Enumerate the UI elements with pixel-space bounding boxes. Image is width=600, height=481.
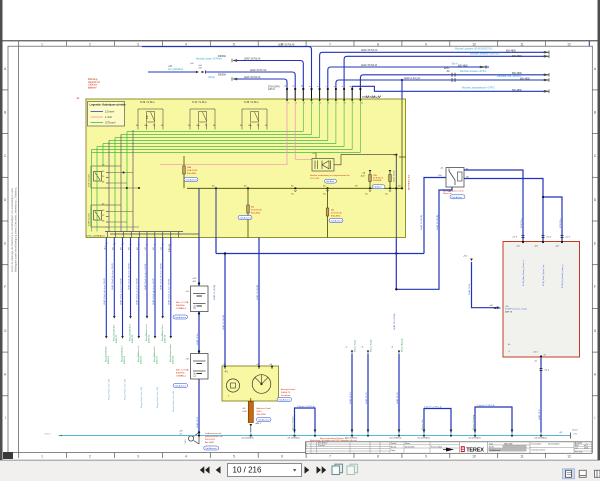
title block [306,439,593,454]
pin labels row [285,85,360,87]
connector end row8 [544,73,549,77]
margin inner line [18,46,20,452]
svg-text:57a: 57a [365,194,368,196]
ground wire stub C label [391,337,403,432]
connector marks under bus [294,190,391,192]
junction dots left [123,172,141,190]
svg-text:+30: +30 [223,364,226,366]
svg-text:7: 7 [326,86,328,87]
page gap line [3,40,598,42]
svg-text:-KM15: -KM15 [44,434,51,436]
svg-text:57a: 57a [323,194,326,196]
svg-text:0,5mm² +5 KFL-A: 0,5mm² +5 KFL-A [477,404,495,407]
svg-text:62 B 30 06: 62 B 30 06 [331,213,342,215]
label text G1 [176,301,189,310]
svg-text:+01 (-KGND1): +01 (-KGND1) [287,438,300,440]
svg-text:800-4800: 800-4800 [512,73,522,75]
switch S5 left [89,204,109,228]
node +30 left pin [493,306,528,314]
node stub right edge [393,155,406,158]
svg-text:ECM_KeySwitch_Input_p: ECM_KeySwitch_Input_p [561,264,564,288]
wire drop 9 [170,238,173,339]
wire row10 pin9 jog right [352,86,544,91]
margin disclaimer rotated text [11,187,17,272]
svg-text:Masse Hupe: Masse Hupe [354,339,356,352]
svg-text:Franz Gruber: Franz Gruber [431,446,443,449]
relay M1 center [312,153,397,172]
wire pink pair [160,159,312,164]
svg-text:24 V+/54: 24 V+/54 [310,178,320,180]
svg-text:-MB.1: -MB.1 [255,423,262,425]
svg-text:10: 10 [361,103,363,105]
svg-text:LEAF 30 (5L/B): LEAF 30 (5L/B) [256,285,259,300]
svg-text:LEAF 15u/L-ch 1mm GNYE: LEAF 15u/L-ch 1mm GNYE [119,278,122,305]
svg-text:04.06.2010: 04.06.2010 [405,447,414,449]
svg-text:Drawing number: Drawing number [532,449,546,452]
label oval M1 [325,179,337,183]
svg-text:+X7.5: +X7.5 [565,237,570,239]
bundle tail labels lightblue [109,378,176,412]
terminal symbols +15 [168,63,206,74]
svg-text:-123: -123 [555,246,559,248]
label row9 [404,75,530,80]
svg-text:Muchas Lamparabande +STR-2: Muchas Lamparabande +STR-2 [462,87,495,90]
svg-text:-X16: -X16 [393,155,398,157]
svg-text:60 A 10.04: 60 A 10.04 [187,169,198,172]
svg-text:6: 6 [281,455,283,459]
connector end row7 [480,65,486,69]
svg-text:(Stufe): (Stufe) [208,76,215,79]
collector rows bottom left [105,232,199,238]
svg-text:10: 10 [472,455,476,459]
label oval F2 [238,216,252,220]
svg-text:4006-04: 4006-04 [132,334,134,343]
bus wire main [187,187,402,189]
svg-text:UTMAN+1: UTMAN+1 [176,375,187,378]
wire drop 7 [154,238,157,339]
wire id labels right verticals [393,215,562,330]
wire drop x402 inside [401,99,403,188]
svg-text:LEAF 31 K3: LEAF 31 K3 [396,391,399,404]
wire battery to ground [198,379,200,433]
svg-text:5: 5 [233,42,235,46]
svg-text:Muchas Lampara +30 B-1: Muchas Lampara +30 B-1 [460,70,487,73]
svg-text:50A: 50A [187,166,191,169]
wire row2 to pin3 [237,61,303,89]
svg-text:10: 10 [301,85,303,87]
svg-text:S 36 / S 34-1: S 36 / S 34-1 [244,101,259,104]
svg-text:ECM 86 p: ECM 86 p [560,217,562,228]
svg-text:1: 1 [41,42,43,46]
svg-text:5: 5 [320,103,321,105]
svg-text:4006-03: 4006-03 [124,355,126,364]
svg-text:(D+) (Schaltet): (D+) (Schaltet) [168,68,183,71]
svg-text:I: I [5,416,6,420]
svg-text:Opt.Ausz: Opt.Ausz [373,186,382,189]
label row1 [278,43,294,46]
svg-text:gemeinsamen KM: gemeinsamen KM [205,436,223,438]
date cells [390,442,459,454]
svg-text:4006-08: 4006-08 [164,334,166,343]
svg-text:h: h [228,396,229,398]
junction dot loop [224,252,226,254]
layout button two-page (clipped) [595,470,600,477]
svg-text:Stromlaufplan: Stromlaufplan [548,442,560,445]
wire x396 feed [395,155,397,239]
svg-text:+X7.3: +X7.3 [512,237,517,239]
layout button fit-width [579,470,586,477]
svg-text:Anlasser Dawf: Anlasser Dawf [257,407,271,410]
TEREX logo [459,442,484,454]
svg-text:12P M.: 12P M. [268,89,276,91]
svg-text:57a: 57a [385,194,388,196]
svg-text:40004-70: 40004-70 [281,392,291,394]
svg-text:-W8.1: -W8.1 [185,438,187,444]
svg-text:Heizker verbindung zu Lampenst: Heizker verbindung zu Lampenstrom Ein [310,174,350,177]
svg-text:800-4800: 800-4800 [512,90,522,92]
label row7 [361,63,468,70]
svg-text:F: F [4,285,6,289]
svg-text:Opt.Ausz: Opt.Ausz [326,180,335,183]
layout button single-page (selected) [563,469,575,479]
inline connector pair v1 [512,236,525,239]
svg-text:Gebersensor auf: Gebersensor auf [205,432,222,435]
svg-text:8: 8 [377,455,379,459]
connector end row10 [544,90,549,94]
svg-text:7: 7 [329,455,331,459]
svg-text:800-4800: 800-4800 [257,414,267,416]
svg-text:S 31 / S 34-1: S 31 / S 34-1 [192,101,207,104]
label text W8.1 [205,432,223,444]
svg-text:7: 7 [337,103,338,105]
svg-text:ALLGEM: ALLGEM [205,441,214,444]
svg-text:0,75 mm²: 0,75 mm² [105,122,116,125]
svg-text:Masse Kabine: Masse Kabine [292,415,294,430]
label row8 [460,70,522,75]
svg-text:5010: 5010 [257,411,263,413]
svg-text:+15: +15 [256,364,259,366]
battery G1 [186,286,209,312]
wire K1 to ECM pin2 [464,179,543,242]
right ruler ticks [592,90,597,396]
svg-text:1: 1 [41,455,43,459]
legend box [88,102,127,127]
svg-text:12: 12 [567,42,571,46]
inline connector pair v2 [542,236,552,239]
svg-text:4: 4 [185,455,187,459]
svg-text:10 / 216: 10 / 216 [233,466,262,475]
svg-text:2,5 mm²: 2,5 mm² [105,111,114,114]
fuse F2 on x248 [247,188,263,237]
junction dot x402 [401,79,403,81]
svg-text:3: 3 [137,455,139,459]
wire between batteries [198,312,200,354]
label row10 [462,87,522,92]
connector pin row above block [287,89,360,100]
label row6 [470,53,522,58]
svg-text:Opt.Ausenz: Opt.Ausenz [258,419,269,422]
svg-text:6: 6 [328,103,329,105]
inline connector pair v3 [561,236,571,239]
svg-text:2: 2 [296,103,297,105]
svg-text:8: 8 [345,103,346,105]
svg-text:99009A: 99009A [218,74,226,77]
svg-text:LEAF 15 (5L/B): LEAF 15 (5L/B) [222,315,225,330]
svg-text:11: 11 [520,455,524,459]
left ruler letters [4,67,7,420]
svg-text:-122: -122 [534,246,538,248]
wire drop 8 [161,238,164,319]
svg-text:+03 (-KGND1): +03 (-KGND1) [468,438,481,440]
svg-text:LEAF 15 P2L-M: LEAF 15 P2L-M [278,43,294,46]
svg-text:S 38 / S 21 C: S 38 / S 21 C [89,213,91,226]
pin labels below block edge [105,242,173,246]
projection symbol [443,448,454,452]
svg-text:Bearb.: Bearb. [391,446,397,449]
svg-text:2TM+CIPH: 2TM+CIPH [268,86,280,88]
svg-text:TEREX: TEREX [466,448,484,454]
resistor R2 on x380 [389,170,392,188]
svg-text:12: 12 [567,455,571,459]
shunt MB.1 (orange) [242,402,262,433]
svg-text:Wege Kabel 1mm GN: Wege Kabel 1mm GN [125,378,127,400]
svg-text:7: 7 [329,42,331,46]
wire K1 to ECM pin1 [464,170,523,242]
svg-text:62 B 30 08: 62 B 30 08 [251,210,262,212]
previous page bottom (blank) [3,0,598,40]
svg-text:12V: 12V [194,305,197,310]
wire drop 3 [121,238,124,339]
bus left terminal [44,434,62,437]
label oval G1 [173,315,188,319]
svg-text:LEAF 15u/L-eh 1mm GNYE: LEAF 15u/L-eh 1mm GNYE [136,277,139,305]
pin numbers inside top edge [288,103,363,105]
svg-text:Bemerkung: Schaltplan nach DIN: Bemerkung: Schaltplan nach DIN - Angaben… [310,439,357,442]
svg-text:13A: 13A [373,174,377,177]
bus junction dots [198,434,542,436]
svg-text:5: 5 [233,455,235,459]
pin labels 30 on bus [212,186,401,188]
svg-text:Stundenz.: Stundenz. [281,394,291,397]
left ruler ticks [3,90,9,396]
connector start row2 [232,59,237,62]
prev-page button [216,466,221,473]
svg-text:5: 5 [342,86,344,87]
svg-text:4: 4 [185,42,187,46]
wire row9 pin7 right [336,80,544,89]
wire row3 to pin2 [148,72,295,89]
label row2 [196,55,260,61]
label oval P1 [277,398,292,402]
svg-text:LEAF 15 P2L-B: LEAF 15 P2L-B [361,64,377,67]
inline connector pair row8 [446,71,455,77]
bottom ground group [44,337,578,439]
svg-text:Anzeige komb.: Anzeige komb. [281,388,296,391]
svg-text:10: 10 [472,42,476,46]
svg-text:Datum: Datum [391,442,397,445]
svg-text:Muchas Lampe +5 Pflicht: Muchas Lampe +5 Pflicht [196,58,222,61]
wire drop x216 [215,188,217,237]
svg-text:9: 9 [425,455,427,459]
wire row6 pin8 right [344,56,544,88]
svg-text:3: 3 [137,42,139,46]
connector start row4 [232,77,237,80]
wire row4 to pin1 [237,79,287,89]
svg-text:Wege Kabel 1mm GN: Wege Kabel 1mm GN [109,378,111,400]
sheet cells [574,442,592,454]
wire row1 to pin4 [142,47,312,89]
fuse F4 on x366 [361,170,384,188]
first-page button [200,466,210,473]
svg-text:ECM/Powertrain_Inside: ECM/Powertrain_Inside [505,308,528,311]
ground sensor W8.1 [179,431,200,445]
label DTM-CIPH [268,86,280,91]
svg-text:800-4800: 800-4800 [520,78,530,80]
main feed wire x199 upper [198,238,200,287]
svg-text:LEAF to Krit_Ist: LEAF to Krit_Ist [404,77,420,80]
last-page button [317,466,327,473]
svg-text:800/854+: 800/854+ [176,373,186,375]
bus right terminal [559,430,578,439]
svg-text:Opt.Anlass: Opt.Anlass [452,196,464,199]
svg-text:E: E [4,242,6,246]
svg-text:LEAF 87a (5L/B): LEAF 87a (5L/B) [393,313,396,330]
svg-text:von: von [575,447,578,449]
warning text red [88,78,100,89]
svg-text:-121: -121 [516,246,520,248]
svg-text:-31: -31 [543,355,546,357]
node +101 labels [192,278,197,283]
svg-text:12: 12 [285,85,287,87]
svg-text:UTMAN+1: UTMAN+1 [176,307,187,310]
svg-text:Vorsicht mit: Vorsicht mit [88,81,100,84]
bundle wire id labels [103,262,171,305]
wire drop 6 [146,238,149,319]
svg-text:ECM 85 p: ECM 85 p [521,217,523,228]
label oval K1 [450,195,465,199]
inline connector pair row9 [452,78,455,82]
label oval G2 [173,384,188,388]
svg-text:-05 (-KGND1): -05 (-KGND1) [389,438,402,440]
wire stub top right [588,41,590,46]
svg-text:F: F [594,285,596,289]
svg-text:Muchas Lampara +15/54 B-2: Muchas Lampara +15/54 B-2 [470,53,500,56]
revision table [306,442,391,454]
svg-text:9: 9 [353,103,354,105]
svg-text:ECM_Start_Signal_Inp: ECM_Start_Signal_Inp [542,264,545,286]
bottom ruler ticks [19,453,546,459]
svg-text:LEAF 31 B-: LEAF 31 B- [196,416,199,428]
svg-text:LEAF 15u/L-ih 1mm GNYE: LEAF 15u/L-ih 1mm GNYE [168,278,171,305]
svg-text:2,5mm² +5 KFL-A: 2,5mm² +5 KFL-A [297,405,315,408]
description cells [530,442,574,454]
svg-text:LEAF 15u/L-hh 1mm GNYE: LEAF 15u/L-hh 1mm GNYE [160,262,163,290]
svg-text:800-4800: 800-4800 [331,216,341,218]
svg-text:Opt.Ausenz: Opt.Ausenz [240,217,251,220]
svg-text:Opt.Ausenz: Opt.Ausenz [175,316,186,319]
svg-text:+06 (-KGND1): +06 (-KGND1) [534,438,547,440]
svg-text:2: 2 [89,455,91,459]
svg-text:+30b bei: +30b bei [88,85,97,87]
ground loop 2 [421,405,452,432]
svg-text:4006-05: 4006-05 [141,355,143,364]
copy-page icon (disabled) [347,464,358,474]
svg-text:LEAF 30 5L: LEAF 30 5L [468,283,471,295]
type cells [488,442,530,454]
svg-text:4006-09: 4006-09 [173,355,175,364]
pin top dots [286,88,362,90]
svg-text:9: 9 [310,86,312,87]
svg-text:800-4800: 800-4800 [251,213,261,215]
svg-text:9: 9 [425,42,427,46]
right ruler letters [594,67,597,420]
bundle pin labels top [104,243,170,252]
bus node labels [241,438,547,440]
svg-text:Wege Kabel 1mm GN: Wege Kabel 1mm GN [173,390,175,412]
svg-text:ANTRIEB.1 B+L: ANTRIEB.1 B+L [407,173,410,190]
label oval F4 [372,185,385,189]
svg-text:-KM: -KM [573,434,577,436]
svg-text:LEAF 31 E: LEAF 31 E [538,409,541,420]
svg-text:LEAF 31 K1: LEAF 31 K1 [349,391,352,404]
wire row7 pin6 right [328,67,489,89]
svg-text:Opt.Ausenz: Opt.Ausenz [279,399,290,402]
svg-text:4006-07: 4006-07 [157,355,159,364]
svg-text:Masse Sitz: Masse Sitz [421,419,424,430]
wire id labels vertical pair [213,285,259,330]
svg-text:LEAF 15u/L-gh 1mm GNYE: LEAF 15u/L-gh 1mm GNYE [152,277,155,305]
battery G2 [186,354,209,380]
wire drop 1 [105,238,108,339]
switch S4 left [89,165,109,189]
svg-text:DTM-U/6: DTM-U/6 [169,243,171,252]
wire cluster feed [258,238,260,367]
label text G2 [176,369,189,378]
wire ECM ground drop [534,357,549,433]
svg-text:-X1.3: -X1.3 [533,352,538,354]
junction dot G1 top [198,282,200,284]
svg-text:S 37 / S 21 C: S 37 / S 21 C [89,174,91,187]
switch S31/S34-1 [188,101,216,129]
svg-text:LEAF 15 (5L/B): LEAF 15 (5L/B) [213,285,216,300]
svg-text:DTM+120/8A ACU: DTM+120/8A ACU [87,235,105,238]
connector end row5 [544,51,549,55]
ground loop 3 [473,404,513,433]
page corner mark [3,452,13,459]
svg-text:+50: +50 [440,168,443,170]
loop wire from relay K1 [216,238,424,367]
svg-text:Legende: Kabelquerschnitte: Legende: Kabelquerschnitte [90,103,127,107]
bottom ruler numbers [41,455,571,459]
switch S29/S34-1 [136,101,164,129]
connector end row6 [544,55,549,59]
top ruler numbers [41,42,571,46]
check marks right of pins [366,96,381,98]
ground wire stub A [345,339,356,433]
top harness group [88,43,549,99]
svg-text:26 Bl.: 26 Bl. [584,447,589,449]
svg-text:3: 3 [358,86,360,87]
svg-text:Batt. 12 V2A: Batt. 12 V2A [176,301,189,304]
wire left verticals [92,130,134,232]
svg-text:800/854+: 800/854+ [176,305,186,307]
toolbar [0,461,600,481]
svg-text:0,5mm² +5 KFL-A: 0,5mm² +5 KFL-A [424,405,442,408]
svg-text:800-4800: 800-4800 [187,173,197,175]
svg-text:Opt.Ausenz: Opt.Ausenz [205,447,216,450]
label text MB.1 [257,407,271,416]
stubs S4 S5 to bundle [109,166,140,227]
